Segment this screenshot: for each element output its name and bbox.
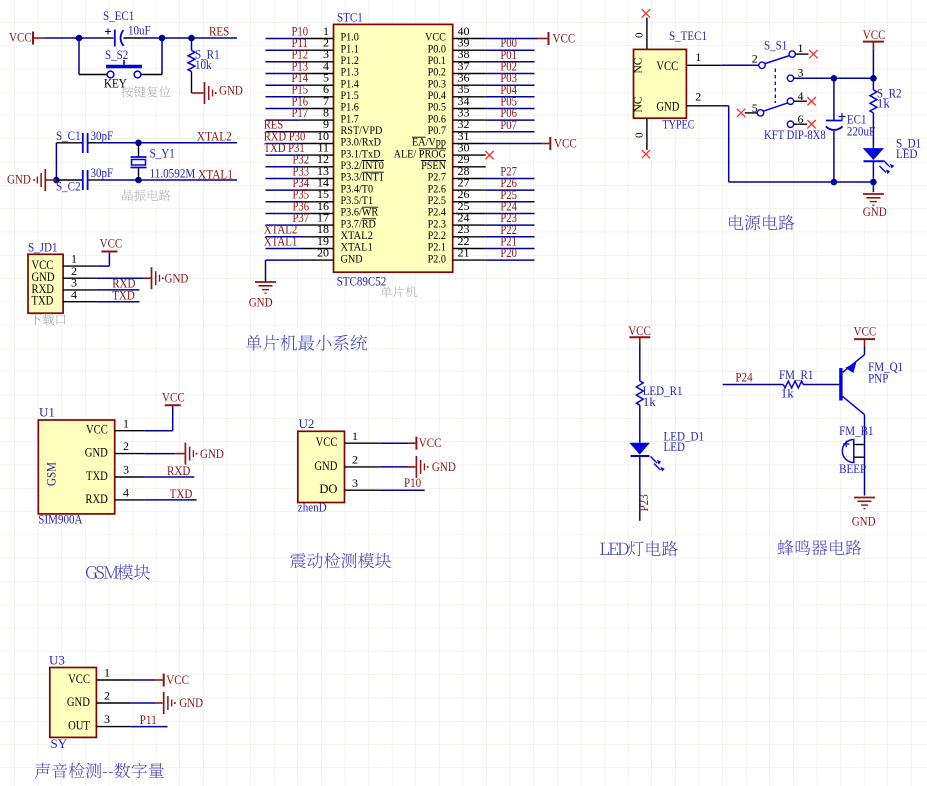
svg-text:XTAL2: XTAL2 bbox=[197, 129, 232, 144]
svg-text:11.0592M: 11.0592M bbox=[150, 166, 196, 181]
svg-text:S_C2: S_C2 bbox=[56, 179, 81, 194]
svg-text:STC89C52: STC89C52 bbox=[337, 274, 387, 289]
svg-text:1: 1 bbox=[695, 50, 701, 64]
svg-text:2: 2 bbox=[123, 439, 129, 453]
svg-text:30pF: 30pF bbox=[91, 128, 114, 143]
svg-text:S_S1: S_S1 bbox=[764, 38, 787, 53]
svg-text:20: 20 bbox=[317, 246, 329, 260]
svg-text:VCC: VCC bbox=[863, 27, 886, 42]
svg-text:NC: NC bbox=[633, 57, 645, 73]
svg-text:SIM900A: SIM900A bbox=[38, 512, 83, 527]
svg-text:VCC: VCC bbox=[9, 30, 32, 45]
svg-text:LED: LED bbox=[664, 439, 686, 454]
svg-text:P07: P07 bbox=[500, 118, 517, 132]
svg-text:0: 0 bbox=[634, 32, 646, 38]
svg-text:KFT DIP-8X8: KFT DIP-8X8 bbox=[764, 128, 826, 142]
svg-text:VCC: VCC bbox=[553, 31, 576, 46]
svg-text:PNP: PNP bbox=[868, 371, 888, 386]
svg-text:TXD: TXD bbox=[32, 294, 54, 308]
svg-text:P23: P23 bbox=[636, 494, 651, 511]
svg-text:2: 2 bbox=[104, 689, 110, 703]
svg-text:VCC: VCC bbox=[554, 136, 577, 151]
svg-text:1k: 1k bbox=[781, 386, 795, 401]
svg-text:0: 0 bbox=[634, 132, 646, 138]
svg-text:GND: GND bbox=[341, 251, 363, 265]
svg-text:220uF: 220uF bbox=[847, 124, 875, 139]
svg-text:TXD: TXD bbox=[86, 469, 108, 483]
svg-text:3: 3 bbox=[798, 65, 804, 79]
svg-text:VCC: VCC bbox=[162, 390, 185, 405]
svg-text:DO: DO bbox=[319, 482, 337, 496]
svg-text:GSM: GSM bbox=[44, 462, 59, 486]
svg-text:3: 3 bbox=[352, 476, 358, 490]
svg-text:OUT: OUT bbox=[68, 719, 90, 733]
svg-text:S_Y1: S_Y1 bbox=[150, 146, 175, 161]
svg-text:4: 4 bbox=[71, 287, 77, 301]
svg-text:LED: LED bbox=[896, 146, 918, 161]
svg-text:GND: GND bbox=[656, 100, 679, 114]
svg-text:S_S2: S_S2 bbox=[105, 47, 128, 62]
svg-text:XTAL1: XTAL1 bbox=[264, 234, 298, 248]
svg-text:2: 2 bbox=[752, 52, 758, 66]
svg-text:3: 3 bbox=[123, 463, 129, 477]
svg-text:FM_R1: FM_R1 bbox=[779, 367, 813, 382]
svg-text:S_JD1: S_JD1 bbox=[28, 240, 58, 255]
svg-text:GND: GND bbox=[85, 446, 108, 460]
svg-text:P24: P24 bbox=[735, 370, 753, 385]
svg-text:GND: GND bbox=[852, 514, 876, 529]
svg-text:U1: U1 bbox=[39, 405, 55, 420]
svg-text:VCC: VCC bbox=[166, 672, 189, 687]
svg-text:GND: GND bbox=[200, 446, 224, 461]
svg-text:TXD: TXD bbox=[170, 486, 193, 501]
svg-text:GND: GND bbox=[432, 459, 456, 474]
svg-text:10uF: 10uF bbox=[128, 23, 151, 38]
svg-text:VCC: VCC bbox=[656, 59, 678, 73]
svg-text:1k: 1k bbox=[877, 96, 891, 111]
svg-text:2: 2 bbox=[695, 90, 701, 104]
svg-text:3: 3 bbox=[104, 712, 110, 726]
svg-text:GND: GND bbox=[179, 695, 203, 710]
svg-text:30pF: 30pF bbox=[91, 165, 114, 180]
svg-text:P10: P10 bbox=[404, 475, 421, 490]
svg-text:SY: SY bbox=[51, 736, 68, 751]
svg-text:RXD: RXD bbox=[85, 492, 107, 506]
svg-text:GND: GND bbox=[249, 295, 273, 310]
svg-text:GND: GND bbox=[7, 172, 31, 187]
svg-text:P17: P17 bbox=[292, 106, 309, 120]
svg-text:RES: RES bbox=[209, 24, 229, 39]
svg-text:zhenD: zhenD bbox=[298, 500, 327, 515]
svg-text:GND: GND bbox=[219, 83, 243, 98]
svg-text:1: 1 bbox=[123, 416, 129, 430]
svg-text:GND: GND bbox=[165, 271, 189, 286]
svg-text:1: 1 bbox=[104, 666, 110, 680]
svg-text:GND: GND bbox=[314, 459, 337, 473]
svg-text:VCC: VCC bbox=[419, 435, 442, 450]
svg-text:VCC: VCC bbox=[86, 423, 108, 437]
svg-text:P11: P11 bbox=[140, 712, 157, 727]
svg-text:VCC: VCC bbox=[68, 672, 90, 686]
svg-text:P2.0: P2.0 bbox=[428, 251, 446, 265]
svg-text:S_EC1: S_EC1 bbox=[103, 8, 134, 23]
svg-text:21: 21 bbox=[458, 246, 470, 260]
svg-text:VCC: VCC bbox=[100, 236, 123, 251]
svg-text:1: 1 bbox=[798, 41, 804, 55]
svg-text:1: 1 bbox=[352, 429, 358, 443]
svg-text:FM_B1: FM_B1 bbox=[839, 423, 873, 438]
svg-text:GND: GND bbox=[67, 695, 90, 709]
svg-text:1k: 1k bbox=[643, 394, 657, 409]
svg-text:VCC: VCC bbox=[316, 435, 338, 449]
svg-text:TXD: TXD bbox=[112, 288, 135, 303]
svg-text:P20: P20 bbox=[500, 246, 517, 260]
svg-text:BEEP: BEEP bbox=[839, 461, 866, 476]
svg-text:NC: NC bbox=[633, 96, 645, 112]
svg-text:GND: GND bbox=[863, 204, 887, 219]
svg-text:10k: 10k bbox=[195, 57, 212, 72]
svg-text:VCC: VCC bbox=[854, 324, 877, 339]
svg-text:TYPEC: TYPEC bbox=[663, 117, 695, 132]
svg-text:XTAL1: XTAL1 bbox=[198, 167, 233, 182]
svg-text:STC1: STC1 bbox=[337, 10, 363, 25]
svg-text:VCC: VCC bbox=[628, 323, 651, 338]
svg-text:U3: U3 bbox=[49, 653, 65, 668]
svg-text:4: 4 bbox=[123, 486, 129, 500]
svg-text:2: 2 bbox=[352, 453, 358, 467]
svg-text:RXD: RXD bbox=[167, 463, 190, 478]
svg-text:U2: U2 bbox=[299, 416, 315, 431]
svg-text:S_TEC1: S_TEC1 bbox=[669, 28, 707, 43]
svg-text:S_C1: S_C1 bbox=[56, 128, 81, 143]
